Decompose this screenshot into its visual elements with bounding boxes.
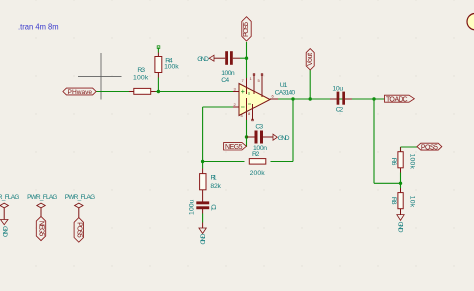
svg-text:GND: GND [199,234,206,245]
svg-text:R6: R6 [390,158,397,166]
svg-text:GND: GND [278,135,290,142]
svg-text:100u: 100u [189,199,196,215]
svg-text:10k: 10k [408,196,415,208]
svg-text:U1: U1 [280,82,288,89]
svg-text:PHwave: PHwave [68,89,93,96]
svg-text:POS5: POS5 [76,222,83,238]
svg-text:NEG5: NEG5 [38,221,45,237]
svg-text:NEG5: NEG5 [225,144,243,151]
svg-text:GND: GND [197,56,209,63]
svg-text:R3: R3 [137,67,145,74]
svg-text:200k: 200k [250,170,266,177]
svg-text:C3: C3 [255,124,263,131]
svg-text:.tran 4m 8m: .tran 4m 8m [18,23,59,32]
svg-text:R2: R2 [252,151,260,158]
svg-text:C2: C2 [336,106,344,113]
svg-text:100k: 100k [164,64,179,71]
svg-text:CA3140: CA3140 [275,90,296,97]
svg-text:TO ADC: TO ADC [386,96,408,103]
svg-text:POS5: POS5 [243,22,250,37]
svg-text:PWR_FLAG: PWR_FLAG [0,194,19,201]
svg-text:GND: GND [1,226,8,237]
svg-text:C4: C4 [221,77,229,84]
svg-text:82k: 82k [210,183,221,190]
svg-text:PWR_FLAG: PWR_FLAG [65,194,95,201]
svg-text:R8: R8 [390,197,397,205]
svg-text:PWR_FLAG: PWR_FLAG [27,194,57,201]
svg-text:100k: 100k [408,153,415,169]
svg-text:R1: R1 [211,175,217,182]
svg-text:Vout: Vout [307,53,314,66]
svg-text:C1: C1 [209,204,216,211]
svg-text:GND: GND [397,222,404,233]
svg-text:POS5: POS5 [421,144,438,151]
svg-text:10u: 10u [332,86,343,93]
svg-text:100k: 100k [133,74,149,81]
